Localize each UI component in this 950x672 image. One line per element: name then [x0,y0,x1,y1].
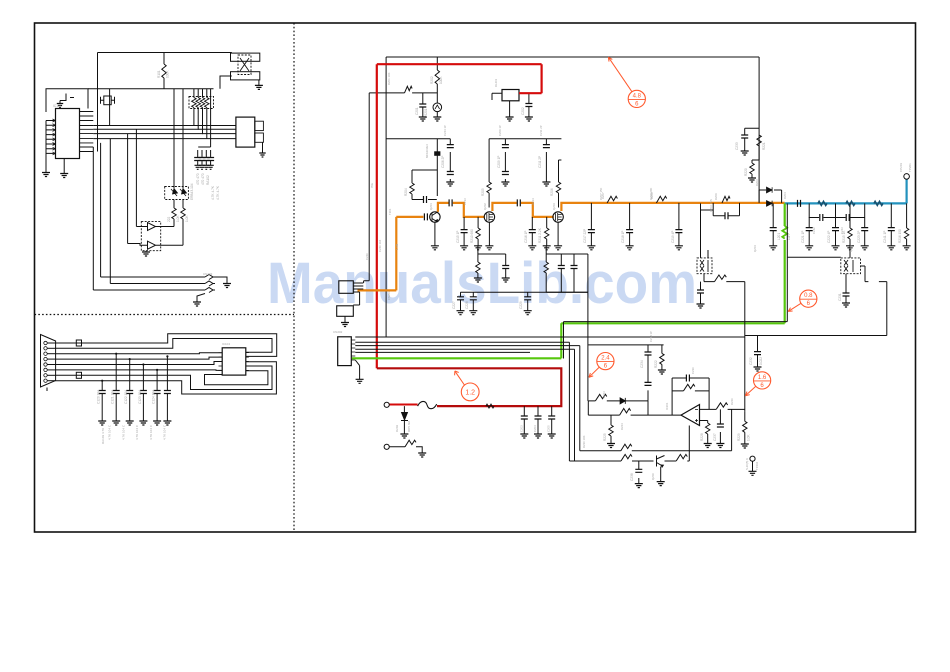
svg-text:ERB43-104: ERB43-104 [190,183,194,200]
svg-text:70E: 70E [370,183,374,188]
connector pin [44,341,47,344]
ground [528,246,536,250]
dashed box Q204 [697,258,712,274]
svg-text:R207 150: R207 150 [599,187,603,200]
pins U104 [219,353,249,371]
dotted divider horizontal [35,314,295,316]
wire [174,200,183,246]
diode D205 [620,398,625,404]
capacitor C222 [832,228,839,231]
wire tier2 right [546,246,588,292]
svg-text:R220: R220 [744,168,748,176]
resistor R204 [410,183,414,194]
svg-text:R223: R223 [602,391,606,398]
svg-text:C234 1P: C234 1P [649,331,653,342]
ground [524,311,532,315]
transistor Q201 [430,212,440,222]
capacitor C233 [741,135,748,138]
wire bypass loop [713,203,739,216]
capacitor C221 [806,228,813,231]
wire [156,370,158,421]
IC U101 [56,109,80,159]
svg-text:C123 104: C123 104 [138,390,142,404]
connector pin [44,374,47,377]
box RL201 [502,90,519,101]
svg-text:C238: C238 [630,473,634,481]
svg-text:C209 1P: C209 1P [497,156,501,168]
capacitor C238 [635,469,642,472]
wire cap branch [422,93,424,117]
ground [126,421,134,425]
wire [47,347,55,349]
wire opamp out rails [588,401,681,415]
wire [101,381,103,421]
ground [501,182,509,186]
svg-text:Q201: Q201 [429,203,433,210]
wire [166,356,168,421]
svg-text:C214: C214 [531,198,535,205]
ground [457,311,465,315]
capacitor C220 [725,212,728,219]
ground [460,246,468,250]
ground [341,323,349,327]
svg-text:1.0K: 1.0K [176,215,180,222]
reference label 4.8/6 [628,90,645,107]
svg-text:100K: 100K [166,70,170,78]
svg-text:C211 2P: C211 2P [538,156,542,168]
svg-text:L201: L201 [777,233,781,240]
svg-text:4.8: 4.8 [633,93,642,99]
resistor R210 [476,228,480,239]
capacitor C241 [888,228,895,231]
transistor Q205 pair [844,260,853,272]
wire [808,203,810,245]
wire [145,251,147,252]
svg-text:R226: R226 [730,398,734,405]
ground [400,434,408,438]
svg-text:C236: C236 [691,367,695,374]
wire w4 [56,357,223,359]
wire [197,294,205,303]
connector pin [44,352,47,355]
reference label 1.6/6 [754,372,771,389]
resistor R211 [545,228,549,239]
svg-text:C233: C233 [735,142,739,150]
svg-text:R230 10K: R230 10K [582,435,586,448]
dashed box D101 [165,187,189,200]
connector pin [44,347,47,350]
svg-text:C213: C213 [463,198,467,205]
reference label 1.2 [461,383,479,401]
wire gate T2 [488,139,490,208]
svg-text:6: 6 [760,383,764,389]
wire cap stub [449,139,451,182]
ground [748,178,756,182]
svg-text:C204: C204 [533,425,537,432]
svg-text:C244 1P: C244 1P [443,125,447,136]
svg-text:4.7K 104 C: 4.7K 104 C [122,424,126,440]
capacitor C234 [645,352,652,355]
resistor [620,409,631,416]
wire [220,76,232,89]
wire [355,360,359,379]
wire cluster link [364,281,370,283]
ground [548,434,556,438]
svg-text:CP201: CP201 [899,162,903,172]
svg-text:D203 1SS: D203 1SS [709,199,713,212]
wire bottom rail2 [569,426,689,462]
pins U101 left [46,121,56,154]
wire [201,150,203,165]
ground [626,246,634,250]
wire [849,203,851,245]
wire bus lines [93,126,236,139]
wire top bus [88,53,232,89]
wire feedback [672,378,709,415]
ground [542,182,550,186]
wire w5 [56,362,223,365]
ground [255,85,263,89]
connector pin [44,368,47,371]
ground [805,246,813,250]
wire L4 [355,351,530,353]
capacitor C207 [447,172,454,175]
svg-text:R224: R224 [620,423,624,430]
svg-text:R228: R228 [700,433,704,441]
wire bias rail right [489,139,561,182]
power wire red lower loop [377,368,562,406]
wire mid vertical [587,292,589,401]
svg-text:R201 10K: R201 10K [387,72,391,85]
capacitor C228 [470,297,477,300]
resistor [716,403,727,410]
svg-text:C237: C237 [713,433,717,441]
ferrite bead FB103 [76,340,81,346]
svg-text:C202: C202 [521,107,525,115]
ground [520,434,528,438]
reference label 0.8/6 [800,290,817,307]
diode D101b [180,189,187,197]
svg-text:TP202: TP202 [755,461,759,470]
capacitor C113 [140,391,147,394]
svg-text:C240 104: C240 104 [378,239,382,252]
wire [202,89,204,134]
connector CN103 pin3 [205,281,215,286]
ground [554,246,562,250]
resistor [757,135,761,146]
ground [534,434,542,438]
connector CN103 pin2 [205,275,215,280]
ground [887,246,895,250]
capacitor C225 [558,266,565,269]
wire [129,359,131,421]
resistor [621,444,632,451]
svg-text:R205: R205 [481,188,485,196]
wire [531,217,533,246]
wire [47,358,55,360]
wire crossing verticals [98,89,110,152]
svg-text:C124 104: C124 104 [152,390,156,404]
resistor R222 [660,353,664,364]
ground [741,151,749,155]
capacitor C208 [424,196,427,203]
resistor R233 on red wire [486,404,494,408]
svg-text:Q206: Q206 [651,473,655,480]
svg-text:CN201: CN201 [387,291,391,300]
svg-text:C120 104: C120 104 [97,390,101,404]
wire [463,217,465,246]
ground [675,246,683,250]
svg-text:4.7K 4.7K: 4.7K 4.7K [216,185,220,200]
wire U101 bottom pin [63,159,65,174]
svg-text:4.7K 104 C: 4.7K 104 C [108,424,112,440]
dotted divider vertical [293,23,295,532]
wire bottom rail1 [580,409,732,450]
wire [47,364,55,366]
svg-text:IC201: IC201 [665,402,669,410]
wire w3 [56,353,223,354]
svg-text:R222: R222 [654,360,658,368]
capacitor C209 [502,145,509,148]
ground [207,165,213,169]
svg-text:R101: R101 [157,70,161,78]
capacitor C115 [164,391,171,394]
ground [842,303,850,307]
resistor R213 teal [846,201,855,205]
ground [431,246,439,250]
capacitor C242 [820,214,823,221]
svg-text:1.2: 1.2 [465,390,475,397]
svg-text:0.8: 0.8 [804,293,813,299]
ground [203,165,209,169]
svg-text:470 470: 470 470 [201,173,205,185]
capacitor C205 [548,416,555,419]
resistor network RN101 dashed box [189,97,214,109]
svg-text:6: 6 [635,101,639,107]
resistor [435,70,439,84]
svg-text:CN103: CN103 [203,272,213,276]
ground [506,117,514,121]
wire [215,277,227,284]
wire [47,342,55,344]
buffer U103b [148,241,158,249]
svg-text:IC101: IC101 [53,104,62,108]
svg-text:C240: C240 [365,253,369,260]
wire [846,246,887,336]
svg-text:C222 4P: C222 4P [827,231,831,243]
svg-text:1.6: 1.6 [758,375,767,381]
box FB101 [231,53,260,61]
svg-text:R216 150: R216 150 [898,229,902,243]
svg-text:C121 104: C121 104 [111,390,115,404]
capacitor [199,158,206,161]
wire bus drops [93,129,136,290]
capacitor C226 [571,266,578,269]
svg-text:ManualsLib.com: ManualsLib.com [267,251,697,316]
ground [199,165,205,169]
resistor R217 [476,262,480,273]
bead FB201 [435,152,440,156]
capacitor C201 [419,104,426,107]
capacitor C245 [697,290,704,293]
capacitor C202 [525,104,532,107]
capacitor C112 [126,391,133,394]
resistor R214 teal [874,201,883,205]
wire [629,203,631,246]
ground [57,104,63,108]
ground [223,284,231,288]
meter PS201 [433,103,442,112]
IC U102 [236,117,255,147]
wire [262,142,264,153]
svg-text:RD5.6M: RD5.6M [407,420,411,432]
capacitor [203,158,210,161]
svg-text:C243: C243 [840,227,844,234]
ground [769,246,777,250]
wire opamp input top [700,408,745,410]
wire bus lower runs [93,277,205,290]
wire [492,93,510,117]
resistor [621,454,632,461]
wire h93 rail [369,57,437,103]
wire [546,217,548,246]
ground [446,182,454,186]
capacitor C110 [99,391,106,394]
ground [657,482,665,486]
ground [433,117,441,121]
svg-text:Q203: Q203 [552,203,556,210]
wire w7 wrap inner bottom [56,366,272,390]
svg-text:R210 680: R210 680 [470,229,474,243]
resistor [656,196,666,203]
svg-text:Q202: Q202 [483,203,487,210]
ground [163,421,171,425]
wire gate out [157,227,183,246]
wire [142,365,144,422]
resistor R218 [544,262,548,273]
capacitor C203 [521,416,528,419]
svg-text:R209: R209 [714,193,718,200]
wire [610,415,612,443]
wire Q202 source [488,222,490,246]
ground [502,278,510,282]
ground [142,252,150,256]
capacitor C217 [588,230,595,233]
wire gate in [128,227,148,246]
wire [719,409,721,443]
svg-text:R225: R225 [603,433,607,441]
svg-text:4.7K 104 C: 4.7K 104 C [149,424,153,440]
resistor R212 teal [818,201,827,205]
wire gate T3 [559,160,562,208]
wire diode branch [403,406,405,434]
capacitor C214 [517,199,520,206]
svg-text:C227: C227 [452,301,456,309]
capacitor C215 [461,230,468,233]
ground [846,246,854,250]
svg-text:R204: R204 [404,188,408,196]
svg-text:6: 6 [604,364,608,370]
signal wire teal output [785,179,907,203]
resistor [205,98,209,108]
wire [47,353,55,355]
diode D204 [767,201,773,207]
terminal T203 output [904,174,910,180]
resistor R229 [743,421,747,432]
diode D101a [171,189,178,197]
svg-text:C215 1P: C215 1P [456,231,460,243]
ground [469,311,477,315]
ground [716,444,724,448]
svg-text:100K: 100K [439,76,443,84]
capacitor [207,158,214,161]
ground [658,370,666,374]
capacitor C216 [529,230,536,233]
diode D203 [767,187,773,193]
box oscillator loop [46,89,88,112]
svg-text:IC104: IC104 [222,342,230,346]
wire [210,150,212,165]
resistor [405,440,416,447]
svg-text:0.022: 0.022 [759,357,763,365]
capacitor C239 [770,228,777,231]
svg-text:C218 1P: C218 1P [621,231,625,243]
wire left bus to ground [45,121,47,173]
wire [906,203,908,245]
resistor R225 [609,425,613,436]
wire [772,203,774,245]
wire [551,406,553,434]
wire [472,292,474,311]
capacitor C223 [861,228,868,231]
ground [474,278,482,282]
IC U104 [222,348,246,375]
wire black beside green [564,203,841,358]
ground [259,153,265,157]
capacitor C206 [447,145,454,148]
transistor Q202 mosfet [484,212,494,222]
wire L0 [355,336,745,338]
connector pin [44,363,47,366]
wire diode bypass [759,190,782,203]
wire [537,406,539,434]
ground [587,246,595,250]
dashed box Q205 [841,258,861,274]
capacitor C204 [535,416,542,419]
wire w2 wrap inner top [56,339,272,353]
resistor [181,208,185,219]
svg-text:C201: C201 [415,107,419,115]
ground [42,173,50,177]
diode D202 [401,413,408,421]
capacitor C237 [717,424,724,427]
svg-text:Q205: Q205 [849,245,853,252]
resistor [200,98,204,108]
inductor L201 green [782,226,787,239]
wire mid cluster [588,345,663,401]
svg-text:R202: R202 [430,76,434,84]
ground [485,246,493,250]
crystal X101 [104,96,111,105]
resistor R228 [706,423,710,434]
pins U101 right [80,112,94,152]
svg-text:C217 22P: C217 22P [583,229,587,243]
ground [749,471,757,475]
terminal T201 [384,402,389,407]
resistor R206 [556,182,560,193]
svg-text:R211 2.2K: R211 2.2K [538,227,542,243]
svg-text:Q204: Q204 [753,245,757,252]
